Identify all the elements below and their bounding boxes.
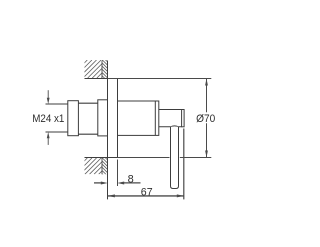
wall hatch bottom block, coarse zone <box>71 158 115 174</box>
handle end extension line for dim 67 <box>183 129 185 200</box>
thread pipe M24 outline top <box>46 103 69 105</box>
wall hatch top block, fine zone (opposite slant) <box>102 56 108 81</box>
wall face line <box>107 61 109 200</box>
wall flange <box>98 100 108 136</box>
svg-text:Ø70: Ø70 <box>196 113 215 125</box>
dimension 8 right arrow and leader <box>117 182 140 185</box>
wall bottom hole cut line <box>85 157 108 159</box>
dimension M24 top arrow <box>47 90 50 104</box>
thread pipe M24 outline bottom <box>46 131 69 133</box>
wall bottom hatch divider line <box>101 158 103 174</box>
wall top hole cut line <box>85 78 108 80</box>
dimension D70 top arrow <box>205 79 208 86</box>
union nut collar <box>68 101 79 136</box>
dimension 67 right arrow <box>177 194 184 197</box>
dimension D70 line <box>206 79 208 158</box>
svg-text:8: 8 <box>128 173 134 185</box>
dimension D70 bottom arrow <box>205 151 208 158</box>
handle hub <box>159 110 182 127</box>
step ring line <box>154 101 156 135</box>
dimension 67 left arrow <box>108 194 115 197</box>
wall top hatch divider line <box>101 61 103 79</box>
escutcheon plate <box>108 79 118 158</box>
middle pipe section <box>78 103 97 134</box>
dimension D70 top extension line <box>108 78 212 80</box>
dimension M24 bottom arrow <box>47 132 50 145</box>
wall hatch top block, coarse zone <box>69 60 119 78</box>
wall hatch bottom block, fine zone (opposite slant) <box>102 154 108 179</box>
body sleeve <box>118 101 159 135</box>
svg-text:67: 67 <box>141 187 153 199</box>
dimension D70 bottom extension line <box>118 157 212 159</box>
lever handle shaft <box>171 127 179 189</box>
dimension 8 left arrow <box>94 182 108 185</box>
svg-text:M24 x1: M24 x1 <box>32 113 64 125</box>
dimension 67 line <box>108 195 185 197</box>
escutcheon extension line for dim 8 <box>117 160 119 187</box>
hub end cap <box>182 110 185 127</box>
lever handle fillet arc <box>171 125 179 128</box>
